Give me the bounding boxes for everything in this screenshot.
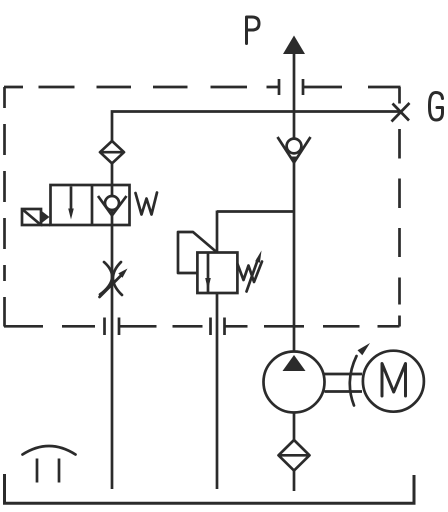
wire pump suction: [293, 413, 296, 441]
enclosure dashed border : right edge: [398, 87, 401, 327]
label M: [382, 364, 406, 397]
port label P: [247, 17, 260, 44]
directional valve check position : circle: [105, 196, 119, 210]
breather ticks: [37, 459, 59, 483]
wire gauge line: [112, 112, 400, 141]
directional valve flow arrow: [70, 187, 73, 210]
relief valve internal path: [207, 253, 210, 293]
relief valve adjust arrow: [247, 259, 259, 292]
wire filter to tank: [293, 471, 296, 491]
wire P supply vertical (top): [293, 53, 296, 139]
drive shaft: [325, 374, 363, 392]
solenoid arrow fill: [41, 211, 50, 224]
breather arc: [23, 446, 76, 455]
plug X at gauge port G: [392, 103, 410, 122]
enclosure dashed border : left edge: [3, 87, 6, 327]
rotation arrow: [350, 356, 357, 406]
pump P1: [264, 352, 325, 413]
check valve V1 on P line : circle: [287, 139, 302, 154]
directional valve check position : seat: [98, 196, 127, 216]
wire diamond to valve: [111, 163, 114, 186]
enclosure border tick marks at P crossing: [279, 79, 303, 95]
motor M1: [363, 351, 424, 412]
enclosure border tick marks at bottom crossings: [105, 318, 225, 336]
directional valve check position : wires: [111, 185, 114, 225]
wire relief outlet to tank: [216, 293, 219, 489]
solenoid box: [22, 209, 41, 225]
wire relief inlet: [216, 211, 219, 254]
check valve V1 seat: [278, 137, 311, 163]
pump outlet triangle: [283, 355, 306, 371]
relief valve pilot line: [178, 232, 217, 273]
relief valve spring: [238, 262, 263, 283]
directional valve cell divider: [91, 185, 94, 225]
solenoid diagonal: [22, 209, 41, 225]
directional valve body: [51, 185, 130, 225]
throttle valve arcs: [100, 262, 122, 295]
tank: [5, 474, 415, 503]
check valve C1 (diamond with seat): [100, 141, 124, 163]
wire valve to throttle and tank: [111, 225, 114, 489]
throttle adjust arrow: [100, 275, 123, 298]
check valve V1 poppet fill: [290, 157, 297, 163]
directional valve spring W: [136, 193, 158, 215]
enclosure dashed border : top edge: [4, 86, 401, 89]
wire relief link: [217, 210, 294, 213]
relief valve body: [197, 253, 237, 294]
port label G: [430, 93, 443, 121]
wire P supply vertical (mid to pump): [293, 163, 296, 353]
port P flow arrow: [283, 36, 305, 55]
filter F1: [279, 440, 310, 471]
enclosure dashed border : bottom edge: [4, 325, 400, 328]
